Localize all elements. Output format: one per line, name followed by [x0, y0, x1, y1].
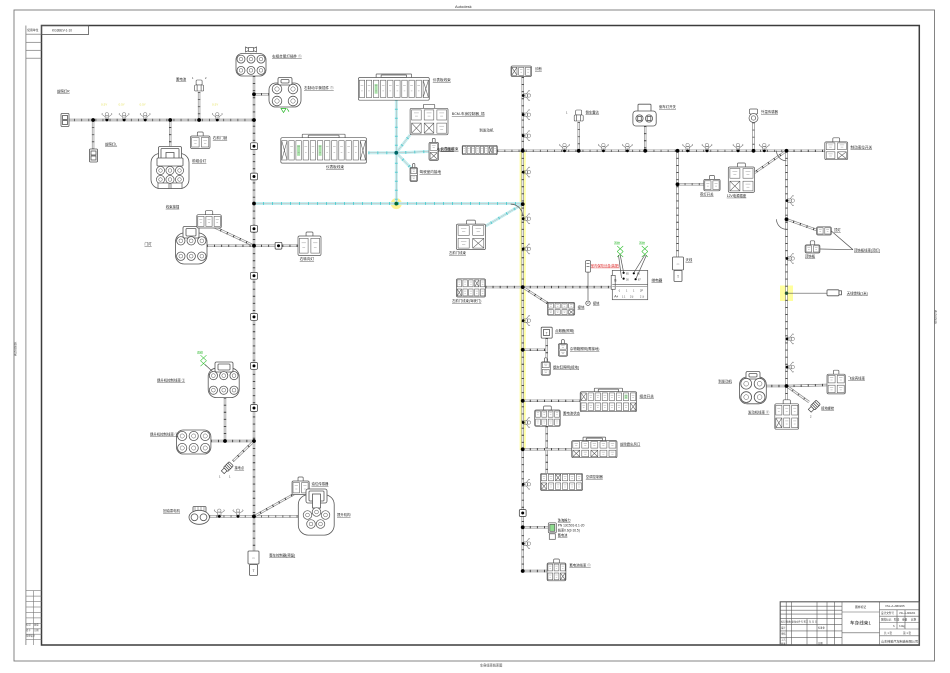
junction (254,441)	[252, 439, 256, 443]
leader green 2b	[636, 255, 647, 279]
connector F1 engine 4-way	[740, 372, 767, 404]
fuse B4 reversing radar	[574, 110, 583, 121]
svg-text:蓄电池状态: 蓄电池状态	[563, 411, 581, 416]
junction (254,203.5)	[252, 202, 256, 206]
wire centre trunk top	[522, 77, 524, 151]
wire down to six-cell connector	[785, 386, 787, 404]
arc bend mark at right trunk corner	[777, 151, 787, 161]
svg-text:回油泵电机: 回油泵电机	[163, 508, 181, 513]
connector B10 antenna	[673, 257, 684, 282]
wire drop to horn connector	[92, 120, 94, 149]
green twisted pair mark 2	[642, 246, 648, 257]
relay pin labels	[616, 273, 644, 299]
svg-text:阶段: 阶段	[894, 618, 900, 622]
connector A5 horn 2-way	[90, 149, 98, 162]
wire to right wheel-speed connector	[254, 93, 269, 95]
svg-text:0.5Y: 0.5Y	[212, 103, 218, 107]
svg-text:蓄电池: 蓄电池	[176, 77, 187, 82]
connector D3 ashtray lamp	[541, 358, 550, 376]
wire left trunk middle	[253, 204, 255, 442]
connector D5 battery status	[535, 406, 561, 426]
connector A15 diagnostic	[410, 164, 418, 182]
connector B8 power socket	[728, 163, 754, 192]
svg-text:2①: 2①	[630, 296, 633, 299]
svg-text:VSL-A-AB0265: VSL-A-AB0265	[885, 604, 905, 608]
svg-text:双绞: 双绞	[197, 350, 203, 355]
svg-text:提升机控制线束 ②: 提升机控制线束 ②	[157, 378, 186, 383]
ground bolt E3	[221, 462, 234, 475]
connector B9 fog switch	[704, 175, 720, 190]
connector E5 oil level sensor	[292, 477, 309, 495]
splice on centre trunk y=248.9	[523, 244, 530, 254]
junction (522.7,150.8)	[521, 149, 525, 153]
splice on main trunk x=564.5	[559, 143, 569, 150]
connector A1 right tail lamp 6-way	[236, 54, 266, 77]
wire cyan bus horizontal	[254, 202, 523, 205]
wire left trunk tail	[253, 516, 255, 551]
splice on centre trunk y=320.6	[523, 315, 530, 325]
arc bend mark at cyan node	[511, 204, 523, 216]
junction (578.7,150.8)	[577, 149, 581, 153]
wire cyan spoke to diagnostic connector	[396, 153, 411, 169]
splice on right trunk y=367.1	[787, 362, 794, 372]
leader green 1b	[619, 255, 622, 278]
wire driver door to trunk	[486, 286, 523, 288]
svg-text:发动机线束 ①: 发动机线束 ①	[748, 410, 770, 415]
svg-text:蓄电池: 蓄电池	[558, 533, 568, 538]
connector A10 turn lamp 2-way	[298, 232, 321, 256]
svg-text:飞轮壳线束: 飞轮壳线束	[848, 376, 866, 381]
yellow glow on right trunk	[780, 286, 793, 302]
junction (522.7,400.8)	[521, 399, 525, 403]
svg-text:烟灰缸照明(接地): 烟灰缸照明(接地)	[553, 365, 579, 370]
junction (254,94.3)	[252, 92, 256, 96]
svg-text:0.5Y: 0.5Y	[140, 103, 146, 107]
svg-text:双绞: 双绞	[614, 240, 620, 245]
connector A9 3-pole	[197, 211, 222, 228]
wire stub to battery fuse	[198, 92, 200, 120]
yellow glow at cyan junction	[391, 198, 402, 209]
junction (170.2,120)	[168, 118, 172, 122]
clip on centre trunk	[519, 510, 526, 517]
wire stub reversing radar	[578, 122, 580, 151]
svg-text:第 1 张: 第 1 张	[903, 631, 911, 635]
title block	[780, 602, 919, 646]
svg-text:诊断: 诊断	[535, 66, 542, 71]
svg-text:3.0kg: 3.0kg	[899, 625, 906, 628]
wire cyan spoke to connector K	[396, 152, 429, 153]
junction (254,120)	[252, 118, 256, 122]
wire centre trunk highlighted	[522, 151, 524, 450]
junction (522.7,527.3)	[521, 525, 525, 529]
svg-text:驾驶室内接地: 驾驶室内接地	[420, 169, 442, 174]
svg-text:⎓: ⎓	[252, 556, 255, 560]
svg-text:倒车雷达: 倒车雷达	[586, 110, 600, 115]
svg-text:油位传感器: 油位传感器	[312, 481, 330, 486]
wire diagonal to oil level sensor	[254, 493, 296, 516]
svg-text:VSL-A-AB0264: VSL-A-AB0264	[899, 612, 916, 615]
wire to cigar lighter branch	[523, 349, 547, 351]
connector E1 hoist control 2	[208, 362, 239, 398]
svg-text:组合开关: 组合开关	[640, 394, 655, 399]
svg-text:线束0.6(3-16.5): 线束0.6(3-16.5)	[558, 528, 580, 533]
svg-text:到发动机: 到发动机	[718, 379, 732, 384]
cyan junction node	[394, 151, 398, 155]
svg-text:接地: 接地	[593, 301, 600, 306]
clip on left trunk y=316.9	[251, 314, 258, 321]
connector C1 driver door grid	[456, 279, 485, 297]
connector D6 defrost outlet	[572, 437, 617, 458]
svg-text:天线馈线(1米): 天线馈线(1米)	[847, 291, 868, 296]
splice on right trunk y=338.9	[787, 334, 794, 344]
junction (786.5,219.3)	[785, 217, 789, 221]
connector A11 instrument panel 12-way	[281, 134, 367, 163]
svg-text:PN 13C501-6.1-20: PN 13C501-6.1-20	[558, 524, 585, 528]
svg-text:前照灯R: 前照灯R	[57, 89, 70, 94]
wire diagonal to ground bolt F	[787, 386, 810, 402]
cyan-yellow junction node	[394, 202, 398, 206]
wire trunk to hoist mechanism	[254, 515, 298, 517]
wire main horizontal trunk	[497, 150, 786, 152]
connector E2 hoist control 1	[177, 430, 211, 454]
connector B7 brake fluid	[825, 138, 848, 160]
wire diagonal to dome lamp	[787, 219, 817, 230]
wire cigar branch vertical	[546, 338, 548, 362]
wire left trunk upper	[253, 76, 255, 204]
svg-text:共 1 张: 共 1 张	[884, 631, 892, 635]
connector F3 six-cell	[775, 400, 799, 429]
svg-text:顶饰板线束(顶灯): 顶饰板线束(顶灯)	[854, 248, 880, 253]
wire diagonal from 3-pole connector	[214, 227, 254, 246]
junction (254,245.7)	[252, 244, 256, 248]
connector A13 BCM 3x3	[410, 104, 448, 135]
wire cyan diagonal to left door connector	[486, 204, 523, 226]
wire fuse stub lower	[587, 287, 589, 300]
connector D2 glovebox lamp	[558, 340, 567, 357]
svg-text:右前门锁: 右前门锁	[213, 135, 228, 140]
clip on left trunk y=275.8	[251, 272, 258, 279]
splice on oil pump wire x=219.3	[214, 509, 224, 516]
splice on main trunk x=687.6	[682, 143, 692, 150]
svg-text:Autodesk: Autodesk	[455, 4, 472, 9]
svg-text:左前门线束: 左前门线束	[449, 250, 467, 255]
green twisted pair mark 1	[617, 246, 623, 257]
connector A8 door lamp 7-way	[176, 227, 208, 265]
connector B5 reversing lamp switch	[633, 104, 656, 126]
wire battery status to AC controller	[546, 426, 548, 473]
junction (786.5,386)	[785, 384, 789, 388]
junction (786.5,150.8)	[785, 149, 789, 153]
wire to turn-lamp connector	[254, 244, 298, 246]
connector B1 diagnostic 3-way	[511, 66, 532, 77]
svg-text:12V电源插座: 12V电源插座	[727, 193, 747, 198]
arc bend mark at dome lamp node	[777, 219, 787, 229]
green mark above hoist	[201, 355, 207, 366]
svg-text:天线: 天线	[686, 257, 693, 262]
wire drop from hoist connector 2	[224, 398, 226, 441]
antenna tap node	[785, 292, 788, 295]
connector B12 trim panel	[805, 241, 820, 253]
connector A6 big front lamp 6-way	[151, 147, 189, 189]
svg-text:左前门线束(驾驶门): 左前门线束(驾驶门)	[452, 298, 481, 303]
wire to gree device	[523, 526, 549, 528]
junction (522.7,204.1)	[521, 202, 525, 206]
svg-text:比例: 比例	[911, 618, 917, 622]
splice on centre trunk y=218.7	[523, 214, 530, 224]
wire centre trunk bottom	[522, 450, 524, 571]
splice on centre trunk y=422.5	[523, 417, 530, 427]
svg-text:蓄电池线束 ①: 蓄电池线束 ①	[569, 563, 591, 568]
wire diagonal to power socket	[755, 151, 787, 173]
connector F2 flywheel housing	[827, 370, 845, 394]
junction (225,441)	[223, 439, 227, 443]
connector C0 left door	[456, 220, 485, 250]
junction (199.1,120)	[197, 118, 201, 122]
svg-text:T: T	[677, 275, 679, 279]
connector D7 AC controller	[541, 473, 583, 490]
connector A2 wheel speed sensor 4-way	[269, 78, 301, 108]
junction (677.5,184.3)	[676, 182, 680, 186]
fuse body on stub	[586, 261, 591, 273]
clip on left trunk y=408	[251, 405, 258, 412]
svg-text:右转向灯: 右转向灯	[300, 256, 315, 261]
connector A12 instrument panel top	[358, 74, 429, 100]
leader hoist green	[205, 365, 213, 373]
svg-text:7: 7	[546, 332, 548, 336]
splice on right trunk y=258.5	[787, 253, 794, 263]
relay box C2	[611, 270, 648, 299]
wire trunk to relay box	[523, 286, 613, 288]
svg-text:仪表板线束: 仪表板线束	[433, 77, 451, 82]
fuse F1 battery stub	[195, 80, 204, 91]
clip on left trunk y=228.7	[251, 225, 258, 232]
wire left headlamp trunk	[67, 119, 254, 121]
splice on main trunk x=707	[702, 143, 712, 150]
splice on main trunk x=738	[733, 143, 743, 150]
svg-text:前组合灯: 前组合灯	[192, 158, 207, 163]
clip on left trunk y=146.2	[251, 143, 258, 150]
svg-text:山东神驰汽车制造有限公司: 山东神驰汽车制造有限公司	[881, 639, 918, 644]
svg-text:图样标记: 图样标记	[855, 605, 866, 609]
connector E7 VCU reserve	[248, 551, 259, 576]
left sidebar column	[25, 26, 27, 646]
wire to brake fluid connector	[787, 150, 825, 152]
junction (254,516.4)	[252, 515, 256, 519]
svg-text:线束接插: 线束接插	[166, 204, 180, 209]
splice on centre trunk y=114.7	[523, 110, 530, 120]
svg-text:顶饰板: 顶饰板	[805, 254, 816, 259]
svg-text:⎓: ⎓	[677, 262, 680, 266]
svg-text:右前门线束: 右前门线束	[437, 147, 455, 152]
svg-text:使用单位: 使用单位	[27, 28, 38, 32]
svg-text:雾灯开关: 雾灯开关	[700, 192, 714, 197]
svg-text:图样标记: 图样标记	[881, 618, 892, 622]
wire diagonal to ground connector	[523, 287, 548, 303]
svg-text:杂物箱照明(需接地): 杂物箱照明(需接地)	[570, 346, 599, 351]
wire right trunk	[785, 151, 787, 386]
green marks under connector A2	[281, 109, 289, 113]
wire to engine connector	[766, 385, 786, 387]
leader green 2a	[634, 255, 645, 273]
splice on headlamp trunk x=145.2	[140, 113, 150, 120]
bowtie clip above connector A1	[246, 47, 257, 52]
leader green 1a	[620, 255, 623, 272]
svg-text:仪表板线束: 仪表板线束	[326, 164, 344, 169]
svg-text:0.5Y: 0.5Y	[119, 103, 125, 107]
svg-text:前照灯L: 前照灯L	[105, 142, 117, 147]
svg-text:接地: 接地	[578, 305, 585, 310]
wire to fog lamp switch	[678, 183, 704, 185]
wire to ground bolt E	[233, 441, 254, 461]
svg-text:接地螺栓: 接地螺栓	[821, 406, 835, 411]
splice on headlamp trunk x=124.1	[119, 113, 129, 120]
top title box	[42, 26, 89, 35]
connector B11 dome lamp	[817, 227, 832, 235]
junction (93.1,120)	[91, 118, 95, 122]
svg-text:前除霜出风口: 前除霜出风口	[620, 442, 640, 447]
splice on main trunk x=764.3	[759, 143, 769, 150]
leader line dome lamp	[831, 231, 853, 250]
junction (645.2,150.8)	[643, 149, 647, 153]
svg-text:提升机控制线束 ①: 提升机控制线束 ①	[150, 432, 179, 437]
splice on headlamp trunk x=217.3	[212, 113, 222, 120]
wire stub reversing lamp switch	[644, 126, 646, 151]
svg-text:T: T	[252, 569, 254, 573]
junction (522.7,287.1)	[521, 285, 525, 289]
svg-text:Autodesk: Autodesk	[14, 342, 18, 356]
splice on centre trunk y=172.1	[523, 167, 530, 177]
junction (522.7,449.3)	[521, 447, 525, 451]
relay pin dots	[623, 272, 637, 281]
svg-text:右组合尾灯插件 ①: 右组合尾灯插件 ①	[272, 54, 302, 59]
svg-text:门灯: 门灯	[145, 241, 153, 246]
wire cyan spoke to instrument connector	[368, 151, 396, 154]
svg-text:双绞: 双绞	[639, 240, 645, 245]
svg-text:珠海格力: 珠海格力	[558, 518, 571, 523]
svg-text:0.5Y: 0.5Y	[101, 103, 107, 107]
wire antenna drop	[676, 151, 678, 257]
svg-text:外温传感器: 外温传感器	[761, 109, 779, 114]
svg-text:重量: 重量	[902, 618, 908, 622]
svg-text:整车控制器(预留): 整车控制器(预留)	[269, 553, 295, 558]
svg-text:制动液位开关: 制动液位开关	[851, 145, 873, 150]
wire to flywheel housing	[787, 385, 828, 386]
splice on right trunk y=200.6	[787, 195, 794, 205]
sensor B6 outside temperature	[749, 109, 758, 123]
wire to combination switch	[523, 400, 581, 402]
connector D4 combination switch	[580, 388, 636, 412]
connector A7 door lock 2x1	[191, 132, 211, 149]
svg-text:BCM-车身控制器_插: BCM-车身控制器_插	[452, 111, 485, 116]
junction (753.5,150.8)	[752, 149, 756, 153]
svg-text:顶灯: 顶灯	[834, 227, 841, 232]
wire hoist connector 1 to trunk	[211, 440, 254, 442]
connector C3 ground grid	[547, 302, 574, 315]
ground circle 2	[586, 301, 590, 305]
junction (677.5,150.8)	[676, 149, 680, 153]
svg-text:提升机构: 提升机构	[337, 512, 351, 517]
wire stub temperature sensor	[752, 123, 754, 151]
yellow highlight band on centre trunk	[520, 151, 526, 450]
svg-text:倒车灯开关: 倒车灯开关	[659, 104, 677, 109]
connector E6 hoist mechanism 5-way	[298, 489, 334, 535]
connector A14 small vertical	[429, 138, 439, 160]
svg-text:车身线束线束图: 车身线束线束图	[480, 663, 502, 668]
svg-text:KG3BEV-1-10: KG3BEV-1-10	[52, 29, 72, 33]
svg-text:接地点: 接地点	[235, 465, 245, 470]
connector D1 cigar lighter	[541, 327, 552, 338]
wire oil pump to trunk	[209, 515, 254, 517]
wire antenna feeder	[787, 292, 828, 294]
wire left trunk lower	[253, 441, 255, 516]
svg-text:右制动平衡插件 ①: 右制动平衡插件 ①	[304, 85, 334, 90]
wire to defrost outlet	[523, 448, 572, 450]
splice on main trunk x=627.4	[622, 143, 632, 150]
splice on headlamp trunk x=106.9	[102, 113, 112, 120]
svg-text:点烟器(照明): 点烟器(照明)	[555, 328, 574, 333]
wire cyan bus vertical	[395, 100, 398, 204]
svg-text:设计文件号: 设计文件号	[881, 611, 894, 615]
svg-text:2 ①: 2 ①	[640, 296, 644, 299]
splice on main trunk x=603.4	[598, 143, 608, 150]
wire cyan spoke to BCM	[396, 135, 410, 153]
svg-text:车身线束1: 车身线束1	[850, 620, 871, 627]
svg-text:2P: 2P	[640, 290, 643, 293]
svg-text:Autodesk: Autodesk	[934, 310, 938, 324]
bottom-left revision table	[26, 591, 42, 645]
wire fuse stub upper	[587, 272, 589, 287]
splice on centre trunk y=484.3	[523, 479, 530, 489]
connector D9 battery harness	[547, 559, 566, 581]
splice on centre trunk y=543.6	[523, 538, 530, 548]
svg-text:继电器: 继电器	[652, 278, 663, 283]
splice on centre trunk y=135.7	[523, 131, 530, 141]
svg-text:空调控制器: 空调控制器	[586, 474, 604, 479]
wire from door-lamp connector	[207, 244, 254, 246]
connector E4 oil pump oval	[189, 507, 209, 525]
clip on left trunk y=176.5	[251, 173, 258, 180]
device D8 gree controller	[548, 523, 556, 540]
junction (522.7,571)	[521, 569, 525, 573]
sidebar top rows	[26, 34, 42, 58]
clip on turn lamp wire	[275, 242, 282, 249]
ground bolt F4	[808, 400, 821, 413]
clip on left trunk y=365.9	[251, 363, 258, 370]
splice on centre trunk y=95.5	[523, 90, 530, 100]
wire drop to front lamp connector	[169, 120, 171, 148]
antenna feeder cylinder B13	[827, 290, 842, 296]
wire to battery harness connector	[523, 570, 547, 572]
connector A4 leftmost 2-way	[61, 114, 69, 127]
junction (522.7,349.8)	[521, 348, 525, 352]
splice on oil pump wire x=238	[233, 509, 243, 516]
svg-text:室内保险丝盒(装配): 室内保险丝盒(装配)	[591, 263, 620, 268]
leader line trim panel	[820, 248, 853, 251]
connector A16 right door inline 8-way	[462, 145, 497, 154]
svg-text:到发动机: 到发动机	[479, 127, 494, 132]
